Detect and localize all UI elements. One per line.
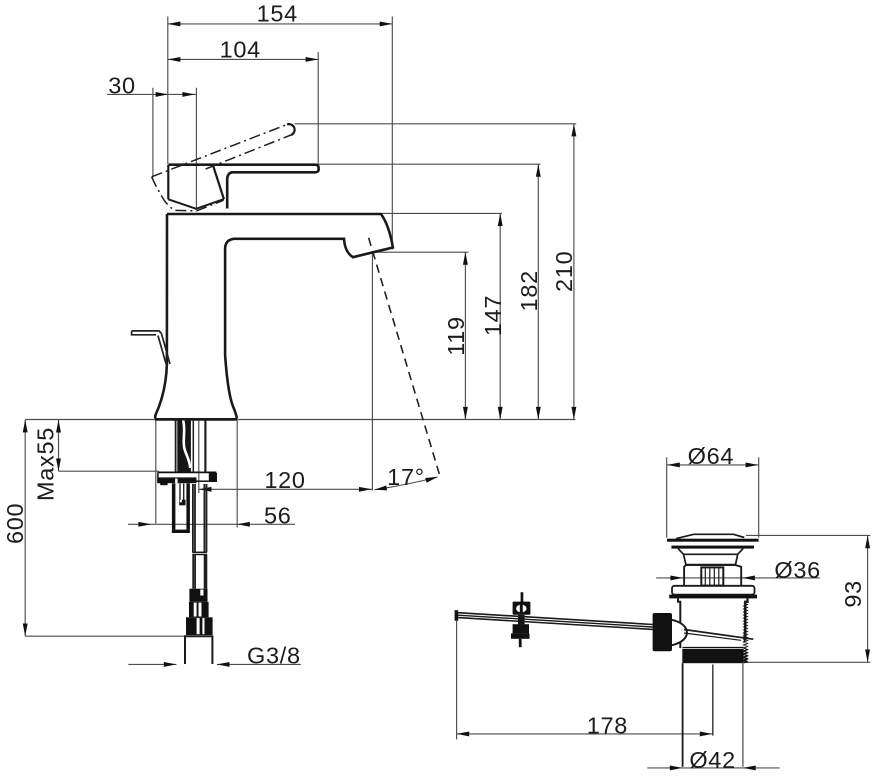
pivot rod ball boss <box>653 613 672 651</box>
supply hose lower segment <box>193 555 206 589</box>
clevis / adjustment clip <box>511 592 530 647</box>
svg-text:Ø42: Ø42 <box>689 747 736 773</box>
pivot rod through body <box>684 630 753 642</box>
water stream dashed line <box>369 238 441 477</box>
svg-text:119: 119 <box>443 316 469 356</box>
dimension 119 vertical <box>443 252 469 419</box>
svg-text:210: 210 <box>551 251 577 292</box>
dimension 120 <box>199 252 373 493</box>
supply shank: stud, pop-up rod (white S channel) and tube <box>176 420 206 472</box>
plug stem and cage <box>684 565 741 586</box>
svg-text:Max55: Max55 <box>33 427 59 501</box>
dimension 600 <box>2 420 186 637</box>
pop-up rod knob <box>132 331 170 367</box>
svg-text:Ø64: Ø64 <box>688 443 735 469</box>
dimension Max55 <box>33 420 159 501</box>
ball joint cone <box>672 620 687 645</box>
reference line for 147 (body top) <box>381 212 502 214</box>
svg-text:56: 56 <box>264 502 292 528</box>
mounting nut U-section <box>172 483 190 533</box>
tailpipe <box>683 663 743 767</box>
mounting surface line <box>25 419 575 421</box>
dimension G3/8 <box>128 643 300 669</box>
dimension O42 <box>647 747 779 773</box>
hose compression fitting <box>189 589 207 602</box>
mounting flange plate <box>158 472 217 485</box>
dimension 93 <box>744 535 870 662</box>
svg-text:182: 182 <box>516 270 542 311</box>
svg-text:154: 154 <box>257 1 298 27</box>
dimension 30 <box>107 73 196 210</box>
angle dimension 17deg <box>374 464 439 492</box>
locking ring (black band) <box>682 648 747 664</box>
reference line for 119 (spout outlet) <box>374 251 469 253</box>
dimension 104 <box>168 37 318 164</box>
reference line for 210 (handle tip max) <box>295 123 577 125</box>
fitting collar <box>189 602 209 618</box>
svg-text:147: 147 <box>480 295 506 336</box>
svg-text:104: 104 <box>220 37 261 63</box>
cartridge cover trapezoid <box>168 165 224 209</box>
dimension 147 vertical <box>480 213 506 419</box>
svg-text:17°: 17° <box>387 464 425 490</box>
faucet body outline <box>155 214 393 419</box>
G3/8 connector tube <box>185 636 212 664</box>
phantom handle (max open, dash-dot) <box>152 124 295 211</box>
external thread serrations <box>744 603 748 663</box>
svg-text:600: 600 <box>2 503 28 544</box>
dimension O64 <box>667 443 759 538</box>
svg-text:178: 178 <box>587 712 628 738</box>
svg-text:93: 93 <box>840 580 866 608</box>
svg-text:Ø36: Ø36 <box>774 557 821 583</box>
dimension 56 <box>128 421 295 529</box>
dimension O36 <box>656 557 821 583</box>
waste flange <box>669 586 757 599</box>
svg-text:30: 30 <box>108 73 136 99</box>
dimension 210 vertical <box>551 124 577 420</box>
faucet solid lever (handle at rest) <box>169 165 319 209</box>
threaded stud inside nut <box>179 483 185 505</box>
dimension 154 top <box>168 1 392 250</box>
waste body <box>678 598 748 648</box>
reference line for 182 (lever top) <box>168 163 541 165</box>
dimension 178 <box>457 621 713 739</box>
horizontal pivot rod <box>455 610 653 629</box>
svg-text:G3/8: G3/8 <box>247 643 301 669</box>
pop-up plug cap <box>667 534 759 565</box>
supply hose upper segment <box>193 484 207 552</box>
hex connection nut <box>186 617 213 635</box>
svg-text:120: 120 <box>264 467 305 493</box>
dimension 182 vertical <box>516 164 542 419</box>
